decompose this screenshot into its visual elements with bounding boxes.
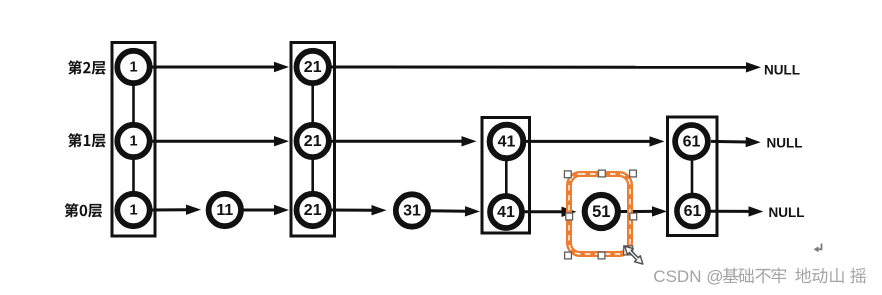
svg-text:31: 31	[403, 203, 421, 220]
svg-text:1: 1	[129, 134, 137, 150]
svg-text:51: 51	[592, 203, 610, 221]
svg-text:21: 21	[304, 202, 322, 219]
svg-text:61: 61	[684, 203, 702, 220]
svg-text:21: 21	[304, 59, 322, 76]
svg-text:CSDN @: CSDN @	[653, 267, 723, 286]
svg-text:NULL: NULL	[764, 62, 800, 77]
svg-text:11: 11	[216, 202, 233, 219]
svg-text:NULL: NULL	[769, 205, 805, 220]
svg-text:21: 21	[304, 133, 322, 150]
svg-text:41: 41	[497, 204, 515, 221]
svg-text:41: 41	[498, 134, 516, 151]
svg-text:1: 1	[129, 60, 137, 76]
svg-text:NULL: NULL	[767, 136, 803, 151]
svg-text:61: 61	[683, 133, 701, 150]
svg-text:1: 1	[129, 203, 137, 219]
